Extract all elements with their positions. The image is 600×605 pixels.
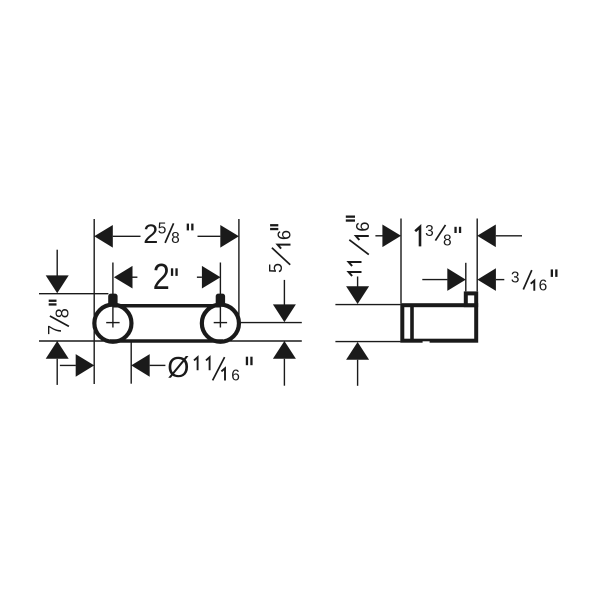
dimension 11/16 down arrow (side view)	[346, 286, 369, 304]
dimension 1 3/8 left arrow pointing right	[382, 225, 401, 248]
dimension 5/16 top stem	[283, 280, 285, 305]
pin on left post	[108, 294, 117, 307]
svg-text:8: 8	[171, 230, 180, 247]
dimension diameter 11/16 right arrow pointing left	[131, 354, 150, 377]
dimension 5/16 label rotated	[266, 224, 295, 273]
dimension 3/16 right stem	[496, 279, 504, 281]
dimension 11/16 top stem (side view)	[357, 277, 359, 287]
dimension 5/16 up arrow	[273, 341, 296, 359]
extension line right of front view (x=239)	[238, 219, 240, 325]
vertical centerline left post	[112, 263, 114, 328]
cross mark left post	[106, 322, 119, 324]
cross mark right post	[214, 322, 227, 324]
svg-text:6: 6	[275, 230, 295, 240]
right mounting post circle	[202, 305, 239, 342]
svg-text:5: 5	[158, 221, 167, 238]
extension line right side of left post (x=131)	[130, 341, 132, 384]
dimension 1 3/8 right stem	[496, 235, 522, 237]
dimension diameter 11/16 right stem	[150, 364, 166, 366]
center axis line right circle to 5/16 dim	[241, 322, 302, 324]
vertical centerline right post	[219, 263, 221, 328]
label diameter 11/16 inch	[167, 352, 252, 384]
dimension 7/8 bottom stem	[56, 359, 58, 385]
pin on right post	[216, 294, 225, 307]
dimension 11/16 bottom stem (side view)	[357, 360, 359, 386]
svg-text:3: 3	[511, 270, 520, 287]
label 7/8 inch rotated	[45, 300, 72, 335]
dimension 2 left arrow	[114, 266, 133, 289]
side view: bottom extension line	[335, 341, 400, 343]
side view: extension line notch left (x=466)	[465, 263, 467, 292]
svg-text:6: 6	[539, 278, 548, 295]
dimension 2 5/8 right arrow	[220, 225, 239, 248]
dimension 2 right stem	[197, 276, 202, 278]
label 2 5/8 inch	[143, 219, 193, 249]
dimension 3/16 left arrow pointing right	[447, 268, 466, 291]
side view: top extension line	[335, 304, 400, 306]
dimension 2 right arrow	[202, 266, 221, 289]
svg-text:7: 7	[45, 325, 65, 335]
dimension diameter 11/16 left arrow pointing right	[76, 354, 95, 377]
side view: extension line right (x=477)	[476, 219, 478, 292]
svg-text:5: 5	[266, 263, 286, 273]
svg-text:Ø: Ø	[167, 352, 189, 384]
side view notch at top right	[466, 293, 476, 305]
horizontal extension line top-left (pin top level)	[39, 293, 108, 295]
dimension 7/8 up arrow	[46, 341, 69, 359]
label 3/16 inch	[511, 269, 558, 294]
horizontal extension line bottom-left (bar bottom level)	[39, 340, 112, 342]
svg-text:2: 2	[153, 258, 170, 298]
bar top edge	[113, 304, 220, 308]
dimension diameter 11/16 left stem	[60, 364, 76, 366]
dimension 7/8 down arrow	[46, 275, 69, 293]
label 1 3/8 inch	[415, 223, 461, 249]
dimension 2 left stem	[133, 276, 138, 278]
dimension 11/16 label rotated (side view)	[346, 216, 373, 277]
dimension 2 5/8 left stem	[113, 235, 141, 237]
dimension 2 5/8 left arrow	[94, 225, 113, 248]
dimension 5/16 bottom stem	[283, 359, 285, 386]
dimension 1 3/8 right arrow pointing left	[477, 225, 496, 248]
svg-text:8: 8	[443, 232, 452, 249]
side view: extension line left (x=401)	[400, 219, 402, 304]
horizontal extension line bottom-right of front view	[221, 340, 302, 342]
svg-text:6: 6	[353, 222, 373, 232]
dimension 7/8 top stem	[56, 250, 58, 276]
svg-text:6: 6	[231, 368, 240, 385]
dimension 2 5/8 right stem	[198, 235, 221, 237]
dimension 5/16 down arrow	[273, 304, 296, 322]
svg-text:2: 2	[143, 219, 158, 249]
left mounting post circle	[94, 305, 131, 342]
bar bottom edge	[110, 339, 223, 343]
dimension 3/16 left stem	[422, 279, 447, 281]
side view wall plate divider	[410, 304, 414, 342]
dimension 11/16 up arrow (side view)	[346, 342, 369, 360]
dimension 3/16 right arrow pointing left	[477, 268, 496, 291]
label 2 inch	[153, 258, 178, 298]
dimension 1 3/8 left stem	[375, 235, 382, 237]
extension line left of front view (x=94)	[93, 219, 95, 384]
svg-text:3: 3	[425, 223, 434, 240]
svg-text:8: 8	[52, 308, 72, 318]
side view profile body	[402, 305, 476, 341]
side view bottom parting gap	[423, 341, 430, 344]
